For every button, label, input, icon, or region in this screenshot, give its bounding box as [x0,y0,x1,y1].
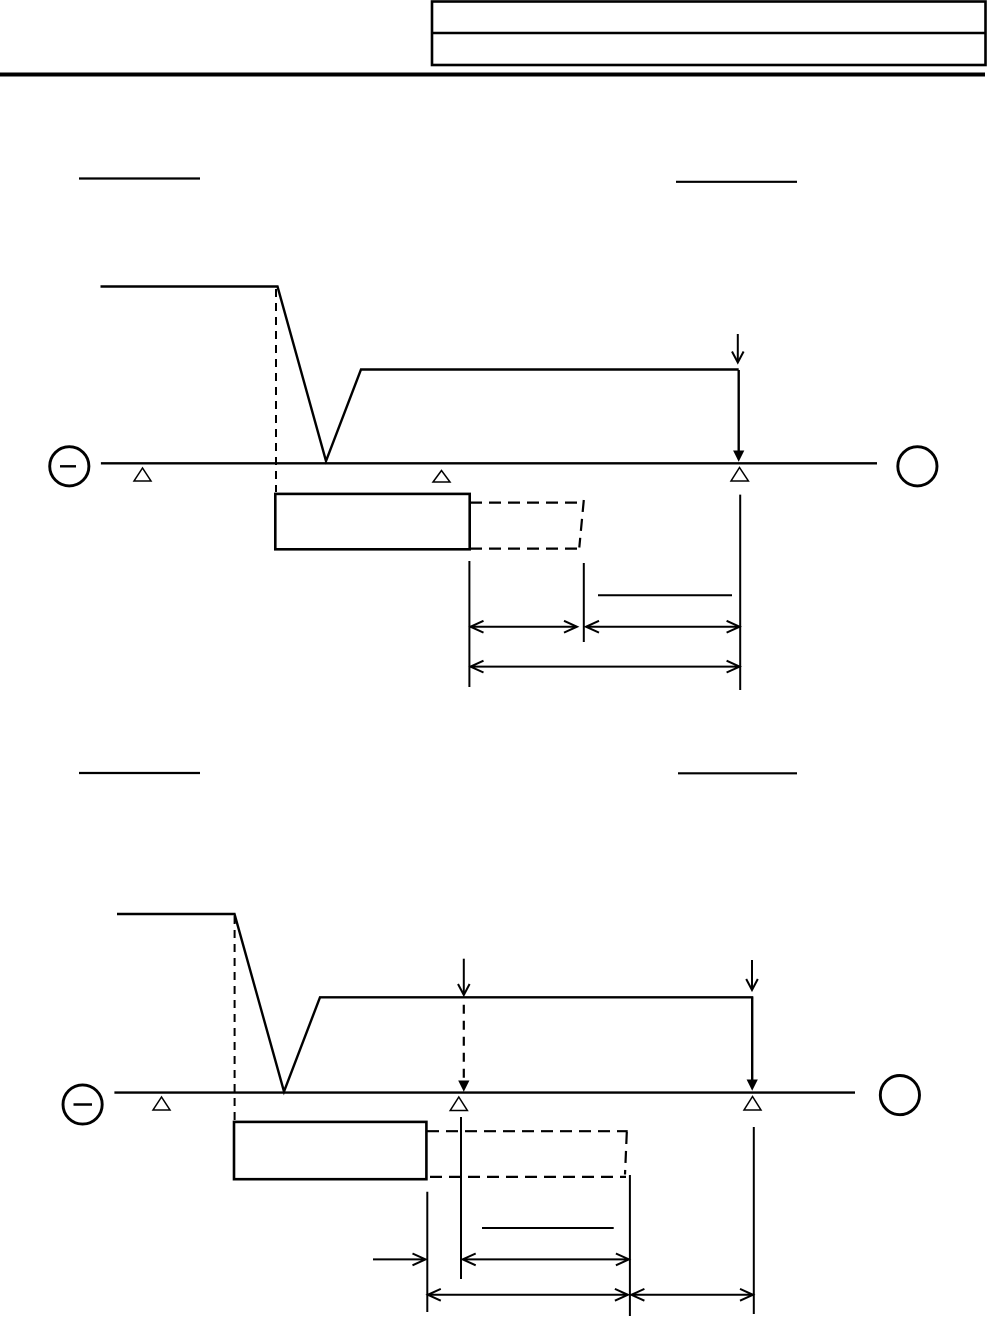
left roller circle with minus [63,1085,102,1124]
filled arrowhead on belt (arrow 1) [458,1081,469,1092]
dimension arrow row2 [471,661,740,673]
sensor triangle 3 [731,468,748,482]
dashed shifted rectangle bottom [430,1176,626,1178]
small open down arrow 1 [458,959,470,995]
solid down arrow from profile end to belt [733,370,744,462]
paper/workpiece solid rectangle [234,1122,426,1179]
dashed shifted rectangle top [427,1130,628,1132]
right roller circle (empty) [898,447,937,486]
belt line [101,462,877,464]
dashed vertical from profile corner [234,916,236,1120]
left roller circle with minus [50,447,89,486]
dashed shifted rectangle top [470,502,582,504]
dashed shifted rectangle right edge [625,1132,627,1175]
vertical line below triangle 2 [460,1117,462,1279]
dashed arrow shaft to belt [463,1005,465,1079]
thick horizontal rule [0,73,985,77]
dashed shifted rectangle bottom [470,547,580,549]
extension line c [739,495,741,690]
dashed vertical from profile corner [275,289,277,492]
dimension label underline [598,594,732,596]
extension line a [468,561,470,687]
sensor triangle 1 [153,1097,170,1110]
extension line b [583,563,585,642]
section 1 heading underline right [676,181,797,183]
single right arrow into extension a [373,1254,426,1266]
speed profile polyline [101,287,739,462]
vertical line below triangle 3 [753,1127,755,1314]
extension line c [629,1175,631,1316]
paper/workpiece solid rectangle [275,494,469,549]
section 2 heading underline right [678,772,797,774]
small open down arrow above profile end [732,334,744,363]
extension line a [426,1192,428,1312]
dashed shifted rectangle right edge [579,500,584,548]
sensor triangle 1 [134,468,151,481]
speed profile polyline [117,914,753,1092]
sensor triangle 3 [744,1097,761,1111]
small open down arrow 2 [746,960,758,990]
right roller circle (empty) [880,1076,919,1115]
dimension arrow row1 right [586,621,740,633]
belt line [114,1091,855,1093]
section 2 heading underline left [79,772,200,774]
header table (2 empty rows) [432,2,986,66]
dimension arrow row2 left [428,1289,628,1301]
dimension label underline [482,1227,614,1229]
solid down arrow from profile end to belt [747,997,758,1091]
sensor triangle 2 [433,471,450,483]
sensor triangle 2 [450,1097,467,1111]
section 1 heading underline left [79,177,200,179]
dimension arrow row1 left [471,621,578,633]
dimension arrow row1 [463,1254,629,1266]
dimension arrow row2 right [631,1289,753,1301]
